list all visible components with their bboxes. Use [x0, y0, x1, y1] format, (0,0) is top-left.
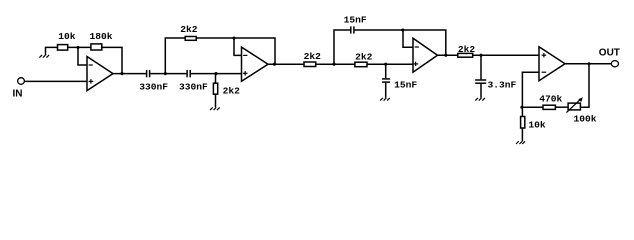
op-amp U4 — [539, 47, 565, 81]
capacitor C3 15nF — [351, 26, 354, 33]
op-amp U3 — [413, 38, 438, 72]
node U4 output junction — [587, 62, 590, 65]
node junction B — [214, 72, 217, 75]
node junction U3 minus branch — [401, 28, 404, 31]
U4 minus sign — [542, 71, 547, 73]
U3 plus sign — [414, 62, 418, 66]
output terminal OUT — [611, 61, 618, 67]
wire R4 to ground — [215, 94, 217, 107]
wire U3 output to R7 — [438, 54, 458, 56]
node junction C — [332, 63, 335, 66]
svg-text:2k2: 2k2 — [180, 24, 198, 35]
U2 plus sign — [243, 71, 248, 75]
svg-text:15nF: 15nF — [344, 14, 367, 25]
wire U2 output to R5 — [268, 63, 304, 65]
svg-text:IN: IN — [13, 89, 23, 100]
wire junction C up to feedback row 15nF — [334, 30, 350, 64]
U1 plus sign — [89, 79, 94, 83]
wire C2 to U2 + input — [191, 73, 242, 75]
potentiometer P1 100k box — [568, 103, 580, 110]
capacitor C2 330nF — [187, 70, 190, 77]
node junction D — [384, 63, 387, 66]
ground G1 — [39, 55, 49, 58]
wire U1 output — [113, 73, 146, 75]
svg-text:470k: 470k — [539, 94, 562, 105]
resistor R3 2k2 — [185, 37, 196, 41]
wire C4 to ground — [385, 83, 387, 98]
svg-text:2k2: 2k2 — [458, 44, 476, 55]
svg-text:OUT: OUT — [599, 48, 620, 59]
wire C1 to C2 — [150, 73, 186, 75]
node junction F — [520, 106, 523, 109]
resistor R5 2k2 — [304, 62, 316, 67]
wire IN to op-amp U1 + input — [24, 80, 87, 82]
node U2 output junction — [273, 63, 276, 66]
node junction U2 minus branch — [232, 36, 235, 39]
wire R1 to R2 — [68, 46, 91, 48]
node junction E — [479, 54, 482, 57]
wire R6 to U3 + input — [367, 63, 413, 65]
wire U4 minus input down — [522, 72, 539, 107]
resistor R7 2k2 — [458, 53, 473, 57]
ground G5 — [516, 141, 525, 144]
resistor R2 180k — [91, 44, 102, 50]
svg-text:100k: 100k — [574, 114, 597, 125]
U4 plus sign — [542, 53, 547, 57]
U2 minus sign — [243, 54, 247, 56]
resistor R8 470k — [543, 105, 555, 109]
capacitor C1 330nF — [147, 70, 150, 77]
resistor R6 2k2 — [355, 62, 367, 66]
wire R8 to minus node — [522, 106, 543, 108]
node junction A — [164, 72, 167, 75]
wire P1 to R8 — [555, 106, 568, 108]
U1 minus sign — [89, 64, 93, 66]
wire junction D down to C4 — [385, 64, 387, 78]
wire junction B down to R4 — [215, 74, 217, 84]
svg-text:2k2: 2k2 — [304, 51, 322, 62]
wire C3 to feedback corner — [355, 30, 446, 55]
svg-text:180k: 180k — [90, 31, 113, 42]
wire R2 to feedback corner — [102, 47, 122, 73]
wire down to U2 - input — [234, 38, 242, 55]
capacitor C5 3.3nF — [475, 80, 486, 83]
node junction R1/R2/U1- — [76, 46, 79, 49]
wire output down to feedback row — [581, 64, 590, 107]
wire junction F down to R9 — [521, 107, 523, 116]
potentiometer P1 arrowhead — [578, 97, 583, 102]
wire U4 output to OUT — [565, 63, 611, 65]
node U1 output junction — [120, 72, 123, 75]
resistor R4 2k2 vertical — [213, 83, 217, 94]
resistor R1 10k — [58, 45, 68, 51]
svg-text:330nF: 330nF — [139, 82, 168, 93]
ground G2 — [210, 107, 220, 110]
wire junction down to U1 - input — [78, 47, 87, 65]
input terminal IN — [18, 78, 25, 85]
U3 minus sign — [415, 46, 419, 48]
svg-text:330nF: 330nF — [179, 82, 208, 93]
wire down to U3 - input — [403, 30, 413, 47]
svg-text:2k2: 2k2 — [355, 52, 373, 63]
op-amp U2 — [242, 47, 269, 81]
ground G4 — [475, 98, 485, 101]
wire R9 to ground — [521, 128, 523, 141]
svg-text:15nF: 15nF — [394, 80, 417, 91]
wire R7 to U4 + input — [473, 54, 539, 56]
svg-text:3.3nF: 3.3nF — [488, 79, 517, 90]
wire R5 to R6 — [316, 63, 355, 65]
resistor R9 10k vertical — [521, 117, 525, 129]
wire R3 to feedback corner — [196, 38, 275, 64]
ground G1 stub — [46, 47, 58, 55]
wire junction A up to feedback row — [165, 38, 185, 74]
op-amp U1 — [87, 57, 113, 91]
svg-text:10k: 10k — [58, 31, 76, 42]
wire junction E down to C5 — [480, 55, 482, 79]
svg-text:10k: 10k — [528, 120, 546, 131]
potentiometer P1 arrow — [566, 100, 579, 113]
capacitor C4 15nF — [382, 79, 390, 82]
node U3 output junction — [444, 54, 447, 57]
ground G3 — [380, 98, 390, 101]
wire C5 to ground — [480, 84, 482, 98]
svg-text:2k2: 2k2 — [223, 86, 241, 97]
